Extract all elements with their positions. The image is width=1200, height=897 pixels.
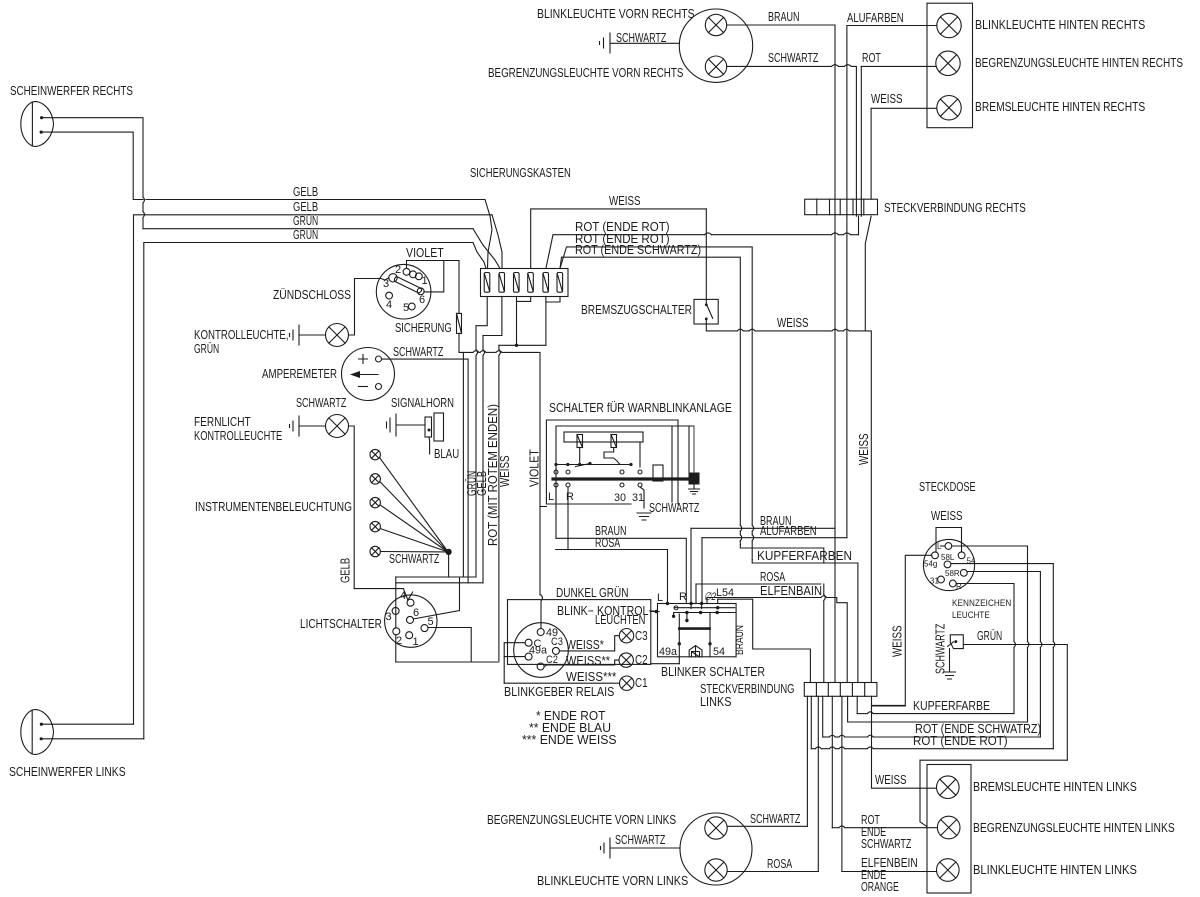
svg-text:BLINKGEBER RELAIS: BLINKGEBER RELAIS (504, 685, 614, 699)
svg-text:LEUCHTE: LEUCHTE (952, 610, 990, 620)
hazard bar black square (689, 473, 700, 485)
trailer socket STECKDOSE (923, 539, 974, 590)
socket pin 31 (938, 576, 945, 583)
svg-text:SCHWARTZ: SCHWARTZ (934, 623, 948, 674)
svg-text:GRÜN: GRÜN (293, 228, 318, 242)
svg-text:SCHWARTZ: SCHWARTZ (861, 837, 912, 851)
svg-text:GELB: GELB (293, 200, 318, 214)
svg-text:ORANGE: ORANGE (861, 880, 899, 894)
wire 31 to ground (640, 487, 644, 508)
trunk rear blink from connector (841, 696, 843, 871)
svg-text:4: 4 (386, 299, 392, 311)
diagonal GELB2 into fuse 2 (492, 215, 502, 269)
wire fuse F5 F6 bridge (546, 297, 560, 303)
svg-text:54: 54 (967, 557, 976, 566)
instrument lamp 5 (370, 546, 380, 556)
svg-text:BLINKLEUCHTE HINTEN LINKS: BLINKLEUCHTE HINTEN LINKS (973, 863, 1137, 877)
svg-text:SCHWARTZ: SCHWARTZ (393, 345, 444, 359)
kontroll lamp C2 (619, 653, 633, 667)
wire terminal 5 to bottom line (428, 628, 471, 663)
wire terminal 2 to bottom line (395, 635, 397, 662)
wire brake switch into box (705, 209, 707, 305)
wire BRAUN front right turn to harness (727, 25, 835, 216)
SECTION: bottom lamps (487, 696, 1175, 894)
front right turn lamp (705, 14, 726, 35)
svg-text:2: 2 (396, 635, 402, 647)
ammeter terminal top (376, 356, 382, 362)
socket L pin hook (941, 545, 946, 547)
fuse F5 (543, 273, 549, 293)
horn symbol (425, 417, 432, 437)
fuse F3 (514, 273, 520, 293)
headlamp left pin low (40, 737, 43, 740)
svg-text:C3: C3 (551, 636, 563, 648)
svg-text:SCHEINWERFER LINKS: SCHEINWERFER LINKS (9, 765, 126, 779)
blinker lever pivot (689, 646, 702, 658)
wire fernlicht lamp to light switch GELB (349, 426, 355, 589)
svg-text:WEISS: WEISS (871, 92, 903, 106)
svg-text:6: 6 (419, 294, 425, 306)
ignition terminal 2 pins (403, 268, 410, 275)
svg-text:KENNZEICHEN: KENNZEICHEN (952, 598, 1011, 608)
wire L54 out right (718, 599, 811, 682)
front right position lamp (705, 56, 726, 77)
svg-text:SCHALTER fÜR WARNBLINKANLAGE: SCHALTER fÜR WARNBLINKANLAGE (549, 401, 732, 415)
ignition terminal 1 (415, 273, 422, 280)
SECTION: top-center front lamps right (488, 7, 856, 216)
hazard contact L pair (554, 470, 558, 474)
diagonal GRUEN1 into fuse 2 (473, 229, 500, 269)
rear right turn lamp (937, 13, 961, 37)
svg-text:C3: C3 (635, 629, 648, 643)
svg-text:VIOLET: VIOLET (406, 246, 444, 260)
trunk ALUFARBEN below connector (846, 216, 848, 538)
row 737 ROT ENDE SCHWATRZ east (823, 736, 830, 738)
svg-text:54: 54 (713, 646, 725, 658)
instrument lamp 1 (370, 449, 380, 459)
svg-text:KUPFERFARBEN: KUPFERFARBEN (757, 549, 852, 563)
wire ROT ENDE ROT 2 (560, 247, 752, 525)
trunk SCHWARTZ front left from connector (806, 696, 808, 826)
wire lamp1 to node (380, 458, 447, 550)
svg-text:GELB: GELB (339, 558, 353, 583)
wire BRAUN drop to R (690, 528, 692, 603)
blinker switch box (658, 604, 737, 657)
blinker bus line A (674, 607, 735, 609)
hazard inner top rail (564, 432, 643, 442)
svg-text:BREMSLEUCHTE HINTEN LINKS: BREMSLEUCHTE HINTEN LINKS (973, 780, 1137, 794)
line ROSA steckverbindung (696, 583, 821, 585)
wire ROT ENDE ROT 1 (546, 235, 705, 269)
ignition rotor bar (394, 277, 421, 294)
svg-text:49a: 49a (659, 646, 678, 658)
wire battery to green lamp (299, 334, 326, 336)
hazard mid bus dots (554, 463, 557, 466)
hazard switch inner box (556, 426, 672, 502)
svg-text:STECKVERBINDUNG: STECKVERBINDUNG (700, 682, 795, 696)
wire kennzeichen to ground (949, 649, 951, 672)
connector STECKVERBINDUNG LINKS (804, 683, 877, 697)
wire ignition terminal 6 riser (424, 261, 444, 292)
wire row A to terminal 6 (414, 577, 460, 619)
svg-text:BRAUN: BRAUN (768, 10, 800, 24)
trunk row 722 from connector (848, 696, 1028, 722)
trunk kupferfarbe riser (856, 696, 858, 713)
instrument lamp 4 (370, 521, 380, 531)
svg-text:6: 6 (413, 607, 419, 619)
rear right lamp cluster box (927, 3, 973, 128)
SECTION: steckdose right area (857, 434, 1067, 761)
wire WEISS to rear right brake lamp (871, 107, 937, 109)
wire SCHWARTZ front left position (727, 825, 807, 827)
brake switch contacts (705, 303, 708, 306)
front left position lamp (705, 817, 727, 839)
headlamp left pin high (40, 723, 43, 726)
wire GRUEN kennzeichen (964, 645, 1068, 761)
svg-text:31: 31 (930, 577, 939, 586)
relay terminal 49a (525, 653, 532, 660)
wire rows to terminal 2 (395, 577, 397, 628)
diagonal GRUEN2 into fuse 1 (473, 243, 486, 269)
wire fuse bottom to schwartz node (458, 351, 460, 353)
SECTION: instruments (194, 278, 542, 662)
wire warnblink box feed (540, 506, 546, 508)
svg-text:BEGRENZUNGSLEUCHTE VORN RECH: BEGRENZUNGSLEUCHTE VORN RECHTS (488, 66, 683, 80)
svg-text:1: 1 (413, 636, 419, 648)
svg-text:30: 30 (614, 492, 626, 504)
wire WEISS from fuse F4 to brake circuit (531, 209, 707, 269)
hazard thick bar (553, 477, 688, 480)
rear left turn lamp (937, 859, 960, 882)
svg-text:WEISS: WEISS (777, 316, 809, 330)
relay terminal C3 mid (552, 647, 559, 654)
node schwartz common (446, 549, 451, 554)
wire battery to front left housing (610, 847, 680, 849)
blinker thick contact bar (679, 627, 709, 630)
ammeter AMPEREMETER (342, 348, 395, 401)
svg-text:WEISS: WEISS (891, 626, 905, 658)
svg-text:54g: 54g (924, 560, 937, 569)
wire left headlight top pin (41, 723, 133, 725)
front right combination lamp housing (679, 9, 752, 82)
hazard mini fuse 2 (611, 435, 617, 448)
svg-text:C1: C1 (635, 676, 648, 690)
svg-text:SICHERUNG: SICHERUNG (395, 321, 452, 335)
row A light switch (396, 576, 476, 578)
wire BRAUN from hazard to blinker switch (556, 538, 686, 603)
svg-text:KONTROLLEUCHTE,: KONTROLLEUCHTE, (194, 328, 289, 342)
ground kennzeichen (944, 672, 956, 679)
row 760 box top extension (920, 759, 1067, 761)
battery feed symbol front right (600, 33, 611, 53)
svg-text:R: R (566, 491, 574, 503)
svg-text:L: L (937, 542, 942, 551)
socket pin center 54g (944, 561, 951, 568)
svg-text:BREMSLEUCHTE HINTEN RECHTS: BREMSLEUCHTE HINTEN RECHTS (975, 100, 1145, 114)
svg-text:AMPEREMETER: AMPEREMETER (262, 367, 337, 381)
svg-text:INSTRUMENTENBELEUCHTUNG: INSTRUMENTENBELEUCHTUNG (195, 500, 352, 514)
wire fuse56 feed down (545, 302, 547, 345)
wire SCHWARTZ front right position to harness (727, 65, 832, 67)
socket pin R (949, 580, 956, 587)
wire headlight right bottom pin to x133 (41, 132, 143, 199)
wire ROSA from hazard to blinker switch (556, 550, 668, 604)
instrument lamp 3 (370, 497, 380, 507)
socket pin 58R (960, 569, 967, 576)
battery symbol fernlicht (290, 416, 300, 436)
wire ALUFARBEN drop (701, 538, 703, 604)
svg-text:ROSA: ROSA (767, 857, 793, 871)
line KUPFERFARBEN lower (752, 560, 858, 683)
ignition terminal 6 (417, 288, 424, 295)
battery symbol kontrolleuchte (290, 325, 300, 345)
svg-text:BLAU: BLAU (434, 447, 459, 461)
rear left lamp cluster box (927, 765, 971, 894)
ignition terminal 4 (386, 292, 393, 299)
svg-text:5: 5 (428, 616, 434, 628)
wire GRUEN 1 (143, 228, 473, 230)
socket pin 54 (958, 552, 965, 559)
svg-text:SCHEINWERFER RECHTS: SCHEINWERFER RECHTS (10, 84, 133, 98)
wire WEISS 2star to lamp C2 (544, 660, 619, 666)
svg-text:SCHWARTZ: SCHWARTZ (768, 51, 819, 65)
svg-text:SICHERUNGSKASTEN: SICHERUNGSKASTEN (470, 166, 571, 180)
fuse box outline (481, 269, 569, 297)
light switch terminal 3 (392, 607, 399, 614)
svg-text:GRÜN: GRÜN (977, 629, 1002, 643)
svg-text:WEISS: WEISS (498, 456, 512, 488)
wire VIOLET from ignition to single fuse (444, 261, 459, 314)
trunk ROSA front left from connector (817, 696, 819, 871)
wire ignition terminal 2 to VIOLET (407, 261, 444, 269)
svg-text:SCHWARTZ: SCHWARTZ (296, 396, 347, 410)
svg-text:SCHWARTZ: SCHWARTZ (389, 552, 440, 566)
wire socket 54 east (951, 564, 1053, 642)
light switch terminal 2 (393, 628, 400, 635)
svg-text:SIGNALHORN: SIGNALHORN (391, 396, 454, 410)
wire WEISS brake line to rear (706, 319, 737, 331)
ground symbol signalhorn (387, 414, 397, 436)
svg-text:*** ENDE WEISS: *** ENDE WEISS (522, 733, 617, 747)
svg-text:ALUFARBEN: ALUFARBEN (847, 11, 904, 25)
blinker 49a drop (678, 614, 680, 664)
svg-text:WEISS: WEISS (857, 434, 871, 466)
fuse F1 (484, 273, 490, 293)
line BRAUN to harness (691, 527, 835, 529)
line ELFENBAIN (707, 597, 821, 599)
wire fuse F3 down to ROT MIT ROTEM ENDEN (516, 301, 518, 345)
wire socket 54g west WEISS (872, 555, 932, 706)
blink kontroll box (508, 600, 651, 665)
svg-text:2: 2 (395, 264, 401, 276)
svg-text:ROSA: ROSA (760, 570, 786, 584)
wire socket 58R east (967, 572, 1040, 642)
ammeter terminal bottom (376, 384, 382, 390)
svg-text:KONTROLLEUCHTE: KONTROLLEUCHTE (194, 429, 282, 443)
svg-text:3: 3 (386, 611, 392, 623)
rear right brake lamp (937, 96, 961, 120)
hazard contact 30 pair (620, 470, 624, 474)
hazard contact 31 pair (638, 470, 642, 474)
wire ammeter plus to fuse via SCHWARTZ (382, 359, 469, 583)
svg-text:ROT: ROT (862, 51, 881, 65)
kontroll lamp C1 (620, 676, 634, 690)
relay terminal C (525, 639, 532, 646)
wire ROT ENDE SCHWARTZ (560, 257, 740, 525)
row B light switch (396, 582, 483, 584)
wire socket L east (952, 546, 1028, 642)
svg-text:SCHWARTZ: SCHWARTZ (750, 812, 801, 826)
wire row 760 down to rear position lamp (920, 760, 927, 826)
wire horn BLAU stub (428, 437, 431, 454)
svg-text:WEISS: WEISS (931, 509, 963, 523)
switch BREMSZUGSCHALTER box (694, 299, 718, 324)
svg-text:STECKDOSE: STECKDOSE (919, 480, 976, 494)
light switch terminal 4 (407, 599, 414, 606)
svg-text:GRÜN: GRÜN (194, 342, 219, 356)
rear left brake lamp (937, 776, 960, 799)
wire ROSA front left turn (727, 871, 818, 873)
wire green lamp to ignition terminal 3 (349, 278, 389, 335)
bottom line light switch (396, 661, 498, 663)
blinker bus line B (674, 612, 736, 614)
wire rear blink to lamp (842, 871, 937, 873)
SECTION: top-right rear lamp box right (805, 3, 1183, 682)
wire single fuse line to warnblink feed (459, 333, 473, 352)
wire flasher relay feed DUNKEL GRUEN (540, 507, 541, 596)
svg-text:LEUCHTEN: LEUCHTEN (595, 613, 645, 627)
svg-text:GELB: GELB (293, 185, 318, 199)
wire fuse line tee down to row A (462, 352, 464, 577)
wire battery to fernlicht lamp (299, 425, 326, 427)
fuse F2 (499, 273, 505, 293)
svg-text:KUPFERFARBE: KUPFERFARBE (913, 699, 990, 713)
svg-text:4: 4 (400, 590, 406, 602)
svg-text:FERNLICHT: FERNLICHT (194, 415, 251, 429)
svg-text:BRAUN: BRAUN (734, 625, 746, 655)
wire battery to front right housing (610, 42, 679, 44)
trunk rear begrenzung from connector (831, 696, 833, 827)
svg-text:WEISS*: WEISS* (566, 638, 604, 652)
fuse F6 (557, 273, 563, 293)
wire L contact to BRAUN (555, 487, 557, 538)
fuse F4 (528, 273, 534, 293)
wire socket R east to kupferfarbe riser (956, 584, 1014, 642)
ammeter minus sign (359, 386, 368, 388)
rear left position lamp (937, 816, 960, 839)
svg-text:BEGRENZUNGSLEUCHTE HINTEN RE: BEGRENZUNGSLEUCHTE HINTEN RECHTS (975, 56, 1183, 70)
trunk ROT below connector joins ROT ENDE ROT line (858, 216, 860, 235)
row C gelb fernlicht to terminal 4 (354, 589, 408, 601)
hazard switch outer box (546, 420, 678, 504)
hazard mid bus (556, 464, 631, 466)
rear right position lamp (936, 51, 960, 75)
svg-text:ROT (ENDE SCHWARTZ): ROT (ENDE SCHWARTZ) (575, 243, 701, 257)
wire relay C to C1 riser (504, 643, 525, 684)
connector STECKVERBINDUNG RECHTS (805, 199, 878, 215)
line ALUFARBEN to harness (702, 537, 847, 539)
ignition terminal 3 (389, 274, 397, 282)
svg-text:WEISS: WEISS (875, 773, 907, 787)
ground under square (689, 485, 700, 495)
svg-text:ALUFARBEN: ALUFARBEN (760, 524, 817, 538)
flasher relay BLINKGEBER RELAIS (514, 623, 569, 678)
svg-text:ZÜNDSCHLOSS: ZÜNDSCHLOSS (273, 288, 351, 302)
wire WEISS 3star to lamp C1 (504, 682, 619, 684)
svg-text:58L: 58L (941, 553, 955, 562)
wire lamp4 to node (380, 529, 446, 552)
short link to steckdose weiss (872, 704, 906, 706)
wire GRUEN 2 with left vertical to left headlight (144, 243, 473, 739)
wire fuse F2 bottom to GELB vertical (483, 297, 502, 350)
battery symbol front left (601, 838, 611, 858)
light switch terminal 5 (421, 625, 428, 632)
ground under 31 (637, 513, 651, 520)
front left combination lamp housing (680, 813, 752, 885)
wire node fuse34 to lichtschalter feed (499, 344, 546, 346)
svg-text:BLINKER SCHALTER: BLINKER SCHALTER (661, 665, 765, 679)
hazard feed from top right (672, 425, 694, 427)
blinker top edge junction dots (666, 602, 669, 605)
svg-text:R: R (679, 591, 687, 603)
wire ALUFARBEN to rear right turn lamp (847, 25, 937, 27)
svg-text:ELFENBAIN: ELFENBAIN (760, 584, 822, 598)
trunk WEISS to rear left brake (872, 696, 937, 788)
wire fuse F1 bottom to GRUEN vertical (476, 297, 487, 350)
indicator lamp green (326, 324, 349, 347)
blinker 54 drop (709, 613, 711, 657)
wire rear begrenzung to lamp (832, 827, 839, 829)
svg-text:STECKVERBINDUNG RECHTS: STECKVERBINDUNG RECHTS (884, 201, 1026, 215)
socket WEISS bridge wire (936, 528, 962, 552)
light switch terminal 6 (407, 616, 414, 623)
single fuse SICHERUNG (457, 313, 462, 333)
trunk WEISS below connector (865, 216, 871, 331)
hazard selector blade (576, 464, 591, 467)
front left turn lamp (705, 859, 727, 881)
trunk ROT ENDE ROT left riser (810, 696, 812, 748)
hazard wiring mid (579, 448, 581, 465)
svg-text:WEISS**: WEISS** (566, 654, 610, 668)
wire ground to horn (396, 424, 425, 426)
wire lamp3 to node (380, 505, 446, 551)
wire 49a to kontroll box (651, 663, 680, 665)
svg-text:C2: C2 (546, 654, 558, 666)
wire WEISS star to lamp C3 (559, 636, 619, 651)
SECTION: warnblink (546, 401, 731, 604)
svg-text:WEISS: WEISS (609, 194, 641, 208)
svg-text:BLINKLEUCHTE VORN RECHTS: BLINKLEUCHTE VORN RECHTS (537, 7, 695, 21)
wire lamp2 to node (380, 482, 446, 551)
kontroll lamp C3 (619, 629, 633, 643)
license plate light symbol (948, 635, 964, 649)
svg-text:SCHWARTZ: SCHWARTZ (615, 833, 666, 847)
svg-text:BLINKLEUCHTE VORN LINKS: BLINKLEUCHTE VORN LINKS (537, 874, 688, 888)
wire lamp5 to node (380, 551, 446, 553)
svg-text:VIOLET: VIOLET (528, 449, 542, 487)
svg-text:BEGRENZUNGSLEUCHTE HINTEN LI: BEGRENZUNGSLEUCHTE HINTEN LINKS (973, 821, 1175, 835)
svg-text:LINKS: LINKS (700, 695, 732, 709)
SECTION: fuse box and ignition (273, 166, 871, 683)
hazard mini fuse 1 (577, 435, 583, 448)
wire kontroll box to blinker box (651, 611, 659, 613)
headlamp right pin low (40, 131, 43, 134)
svg-text:GRÜN: GRÜN (293, 214, 318, 228)
light switch LICHTSCHALTER (385, 595, 437, 647)
row 748.7 ROT ENDE ROT east (811, 748, 815, 750)
ammeter plus sign (359, 355, 368, 364)
svg-text:SCHWARTZ: SCHWARTZ (649, 501, 700, 515)
